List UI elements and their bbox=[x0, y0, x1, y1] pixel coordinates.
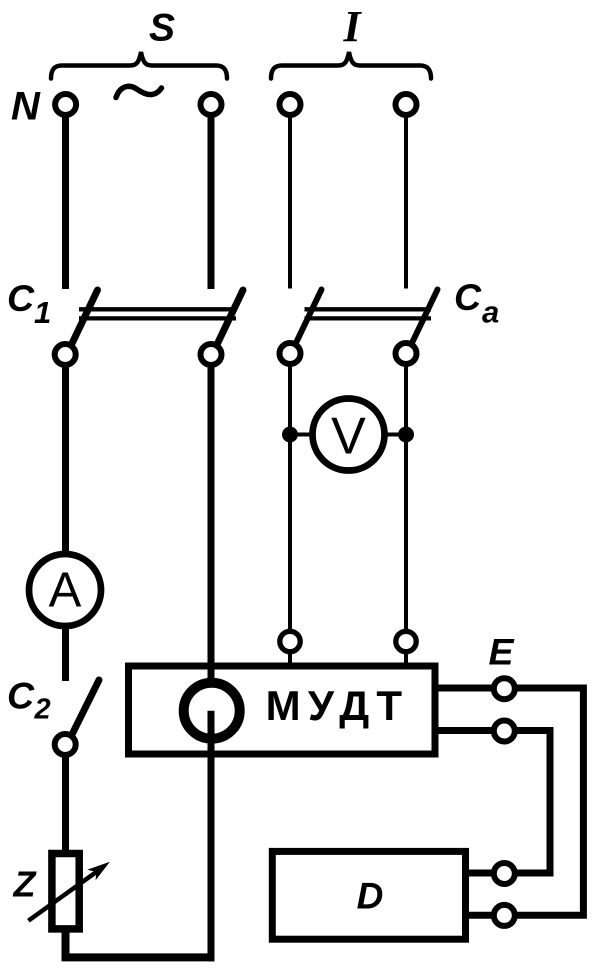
svg-text:C: C bbox=[7, 675, 35, 717]
svg-text:E: E bbox=[489, 631, 515, 673]
svg-text:V: V bbox=[331, 408, 366, 466]
svg-text:C: C bbox=[7, 277, 35, 319]
svg-text:I: I bbox=[342, 2, 362, 51]
svg-text:A: A bbox=[49, 564, 82, 618]
svg-text:D: D bbox=[357, 876, 384, 917]
svg-text:1: 1 bbox=[34, 295, 51, 330]
svg-text:2: 2 bbox=[34, 694, 51, 726]
svg-text:N: N bbox=[11, 85, 41, 129]
svg-text:Z: Z bbox=[13, 864, 38, 905]
svg-text:S: S bbox=[149, 7, 175, 50]
svg-text:МУДТ: МУДТ bbox=[266, 682, 410, 729]
svg-text:C: C bbox=[454, 276, 482, 318]
svg-text:a: a bbox=[482, 295, 499, 330]
